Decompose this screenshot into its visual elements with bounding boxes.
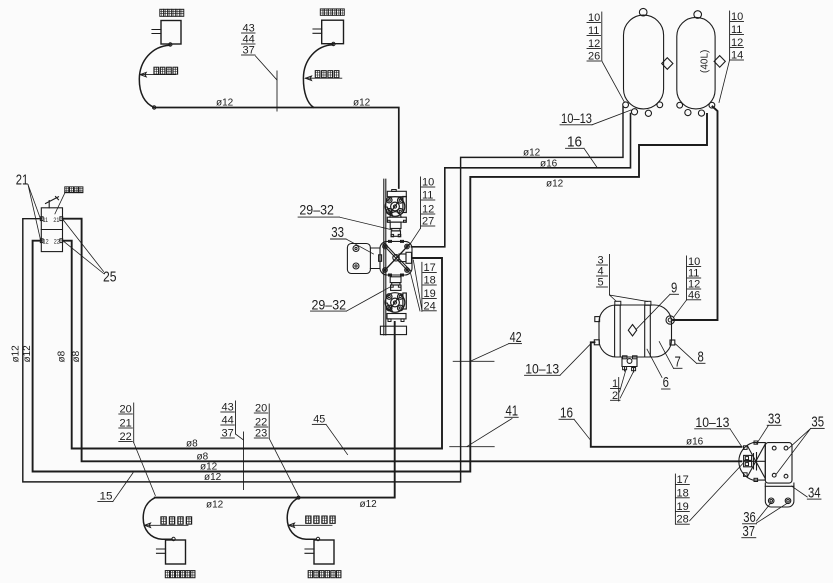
plate foot rect [380, 326, 406, 334]
front brake chamber left: push-rod fork [152, 30, 161, 34]
front brake chamber left: body [161, 21, 181, 45]
wire: valve bottom to rear main line [155, 322, 395, 498]
label 15 [98, 473, 133, 503]
air tank left: top nipple [639, 8, 647, 16]
label stack 20/21/22 [119, 403, 156, 496]
label stack 43/44/37 (top) [242, 23, 278, 81]
wet tank left upper port (plug) [595, 317, 600, 322]
label 33 (bracket) [331, 224, 374, 254]
rear brake chamber right: push-rod fork [305, 549, 314, 553]
svg-text:ø12: ø12 [204, 472, 222, 483]
label 9 (diamond) [636, 280, 679, 330]
upper connector stack [390, 222, 401, 228]
lower connector stack [390, 277, 401, 283]
svg-text:ø8: ø8 [57, 350, 68, 362]
svg-text:10–13: 10–13 [561, 111, 592, 126]
label 35 (plate holes) [777, 414, 825, 474]
svg-text:22: 22 [54, 239, 60, 246]
label stack 10/11/12/14 (right tank) [719, 11, 744, 103]
wire: top main brake line o12 with drop to valve assembly [154, 108, 399, 189]
svg-text:ø12: ø12 [546, 179, 564, 190]
label 6 [647, 349, 670, 391]
label stack 1/2 [611, 370, 634, 402]
central valve edge nubs [389, 240, 404, 276]
label 16 (lower o16 pipe) [559, 405, 590, 440]
label: rear right hose 制动软管 with arrow [306, 516, 335, 523]
svg-text:29–32: 29–32 [299, 201, 334, 217]
wet tank port 46 (valve, right upper) [666, 316, 674, 324]
svg-text:ø8: ø8 [186, 439, 198, 450]
rear brake chamber right: caption 后桥制动分室 [308, 571, 341, 578]
lower valve 29-32: round body with bolt circles [385, 293, 406, 313]
front brake chamber right: hose port dot [332, 42, 335, 45]
front brake chamber right: caption 前桥制动分室 [320, 9, 344, 15]
label 10-13 (wet tank feed) [525, 344, 592, 377]
brake valve port nubs [40, 217, 43, 221]
rear brake chamber left: body [166, 540, 186, 564]
rear brake chamber left: hose port dot [172, 537, 175, 540]
air tank right (vertical reservoir 40L) [677, 17, 715, 109]
svg-text:ø16: ø16 [540, 158, 558, 169]
label 36/37 (bolts) [742, 503, 787, 540]
central valve right port boss [399, 254, 406, 262]
central valve body (X housing) [380, 241, 412, 275]
label 42 (pipe group tick) [453, 329, 521, 362]
relay valve arc nubs [744, 446, 748, 450]
label 16 (o16 pipe) [566, 134, 598, 168]
brake valve body [41, 208, 62, 252]
hose: rear left brake hose curve [143, 498, 172, 540]
svg-text:10–13: 10–13 [525, 362, 559, 377]
relay valve left port fittings [744, 455, 752, 460]
rear brake chamber right: hose port dot [316, 537, 319, 540]
wet tank strap top bolts [615, 301, 621, 305]
label: rear left hose 制动软管 with arrow [161, 517, 192, 524]
label 29-32 (lower) [311, 287, 391, 312]
wire: right air tank to wet tank port 46 [674, 107, 718, 321]
rear brake chamber right: body [314, 540, 334, 564]
svg-text:33: 33 [331, 224, 344, 241]
label 10-13 (tank drain ports) [560, 110, 631, 126]
central valve X cross [383, 243, 411, 272]
svg-text:ø12: ø12 [200, 462, 218, 473]
label stack 17/18/19/28 [675, 463, 743, 526]
label stack 20/22/23 [254, 403, 298, 496]
wet tank left lower port (to relay valve) [594, 340, 599, 345]
upper valve 29-32: flange [387, 191, 406, 196]
rear brake chamber left: caption 后桥制动分室 [165, 571, 195, 578]
label stack 43/44/37 (bottom) with tick [221, 401, 244, 490]
label 8 [676, 344, 706, 366]
svg-text:45: 45 [313, 413, 325, 425]
air tank right: bottom ports [677, 102, 683, 108]
svg-text:ø8: ø8 [71, 350, 82, 362]
wet tank right lower port (8) [670, 340, 675, 345]
brake valve pedal [46, 197, 59, 208]
wet tank body [599, 305, 672, 357]
bracket bolts 36/37 [768, 498, 774, 504]
label 41 (pipe group tick) [450, 403, 519, 447]
svg-text:10–13: 10–13 [695, 415, 729, 430]
label 29-32 (upper) [298, 201, 391, 229]
relay valve body (D shape with X) [739, 443, 765, 481]
hose: front right brake hose curve [303, 45, 333, 108]
central valve corner bolts [383, 244, 388, 249]
upper valve 29-32: round body with bolt circles [385, 197, 406, 217]
air tank left: side diamond port [662, 58, 673, 70]
air tank right: side diamond port [714, 56, 725, 68]
label 21 (brake valve) [16, 171, 41, 241]
lower valve flange [387, 314, 406, 319]
svg-text:21: 21 [16, 171, 29, 188]
label: front left hose 制动软管 with arrow [154, 67, 178, 74]
hose: front left brake hose curve [139, 45, 170, 107]
front brake chamber right: body [322, 20, 344, 44]
svg-text:ø12: ø12 [523, 148, 541, 159]
mounting bracket 33 with bolts [347, 244, 370, 274]
label 33 (relay bracket) [757, 411, 782, 445]
front brake chamber left: caption 前桥制动分室 [160, 9, 184, 16]
svg-text:ø12: ø12 [206, 500, 224, 511]
wire: o8 from brake valve port21 to rear relay valve [63, 219, 742, 462]
svg-text:29–32: 29–32 [312, 296, 347, 312]
svg-text:ø16: ø16 [686, 437, 704, 448]
wire: o16 from central valve top-right to left air tank [412, 114, 631, 247]
label: front right hose 制动软管 with arrow [315, 71, 339, 78]
svg-text:(40L): (40L) [700, 50, 711, 73]
label 10-13 (relay valve) [695, 415, 742, 446]
label stack 10/11/12/46 [674, 256, 701, 317]
svg-text:21: 21 [53, 217, 59, 224]
svg-text:ø12: ø12 [360, 499, 378, 510]
front brake chamber left: hose port dot [169, 43, 172, 46]
wet tank straps [615, 305, 651, 356]
air tank left: bottom ports [623, 102, 629, 108]
wire: o16 wet tank to rear relay valve [591, 342, 742, 447]
label 7 [659, 342, 682, 371]
wet tank center diamond [628, 325, 636, 336]
label stack 10/11/12/26 (left tank) [587, 12, 625, 102]
front brake chamber right: push-rod fork [313, 29, 322, 33]
wet tank drain bolts 1/2 [625, 367, 634, 373]
rear brake chamber left: push-rod fork [157, 549, 166, 553]
wire: o12 from brake valve port11 to left air tank [23, 107, 623, 482]
svg-text:ø12: ø12 [353, 98, 371, 109]
mounting plate 35 [765, 443, 792, 484]
label stack 3/4/5 [597, 255, 648, 302]
tick mark: hose position marker 43/44/37 on top line [276, 71, 278, 111]
brake valve caption 制动踏板 [65, 187, 83, 193]
mounting plate (vertical) [384, 179, 386, 335]
wire: o12 from brake valve port12 to right air tank [33, 114, 707, 472]
label stack 17/18/19/24 [411, 260, 437, 312]
svg-text:15: 15 [100, 490, 113, 502]
bracket 34 [765, 483, 794, 507]
junction dot: rear main line hose 2 tap [297, 496, 300, 499]
junction dot: top line left end [153, 106, 156, 109]
svg-text:ø12: ø12 [10, 345, 21, 363]
wire: o8 from brake valve port22 to central valve right port [63, 241, 443, 449]
label 45 [312, 413, 347, 454]
hose: rear right brake hose curve [287, 498, 316, 540]
svg-text:ø12: ø12 [216, 98, 234, 109]
upper valve: lower flange [387, 217, 406, 222]
central valve center boss [393, 255, 399, 261]
wet tank drain bracket [622, 357, 637, 367]
label 34 (bracket) [792, 484, 822, 501]
air tank right: top nipple [694, 11, 702, 19]
air tank left (vertical reservoir) [624, 15, 664, 109]
svg-text:ø12: ø12 [22, 345, 33, 363]
svg-text:25: 25 [103, 268, 117, 285]
label 25 (brake valve ports) [63, 219, 117, 285]
label stack 10/11/12/27 [411, 177, 435, 244]
relay valve X cross [748, 445, 766, 479]
